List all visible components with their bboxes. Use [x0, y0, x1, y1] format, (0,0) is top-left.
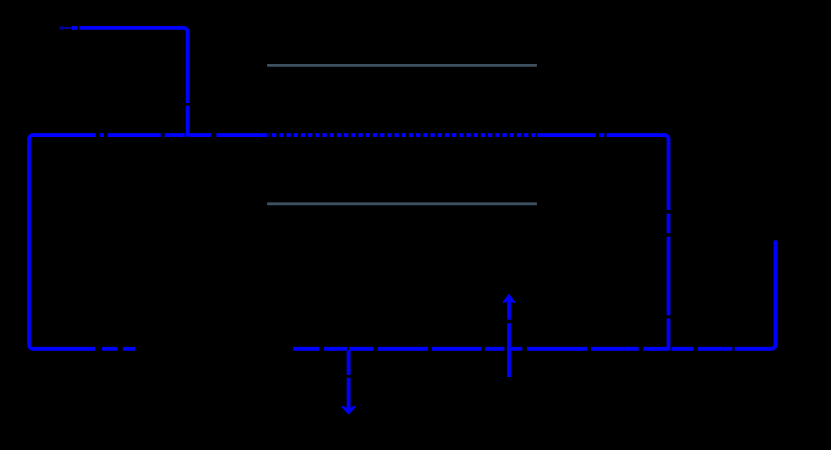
up arrow shaft lower [507, 323, 511, 377]
top level T dot [72, 26, 77, 30]
main level M left solid + left vertical V2 + bottom-left solid (one path) [29, 135, 96, 349]
main level M right solid B with corner into V3 [607, 135, 669, 210]
main level M dash 4 [216, 133, 267, 137]
down arrow shaft lower [347, 378, 351, 410]
up arrow head [504, 295, 515, 302]
wire V1 lower part [186, 106, 190, 137]
main level M right dot [599, 133, 605, 137]
main level M dash 3 [189, 133, 212, 137]
down arrow shaft upper [347, 350, 351, 375]
top level T thin connector [63, 27, 73, 29]
bottom level B dash left of V3 [643, 347, 667, 351]
bottom level B-right dash 3 [349, 347, 374, 351]
main level M dot [100, 133, 104, 137]
bottom level B-right dash 6 [485, 347, 504, 351]
gray level G1 (upper virtual level) [267, 64, 537, 67]
bottom level B-right dash 11 [698, 347, 732, 351]
main level M dash 1 [108, 133, 161, 137]
top level T main segment with corner into V1 [79, 28, 187, 103]
bottom level B-right dash 10 [671, 347, 693, 351]
main level M dotted run [272, 133, 537, 137]
main level M right solid A [537, 133, 596, 137]
main level M faint transition dot [268, 133, 270, 137]
bottom level B-right dash 4 [378, 347, 428, 351]
bottom level B-right dash 5 [432, 347, 482, 351]
bottom level B-left dash 1 [102, 347, 118, 351]
wire V3 dash 3 [667, 318, 671, 350]
bottom level B-left dash 2 [123, 347, 135, 351]
bottom level B-right dash 1 [293, 347, 319, 351]
down arrow head [342, 407, 355, 414]
bottom level B-right dash 2 [324, 347, 347, 351]
bottom level B-right dash 9 [591, 347, 639, 351]
bottom level B-right dash 7 [511, 347, 522, 351]
up arrow shaft top [507, 301, 511, 320]
main level M dash 2 [165, 133, 185, 137]
gray level G2 (lower virtual level) [267, 202, 537, 205]
bottom level B-right dash 12 with corner into V4 riser [735, 241, 776, 349]
top level T faint lead-in dash [59, 26, 63, 30]
bottom level B-right dash 8 [527, 347, 587, 351]
wire V3 dash 2 [667, 237, 671, 316]
wire V3 dash 1 [667, 214, 671, 234]
